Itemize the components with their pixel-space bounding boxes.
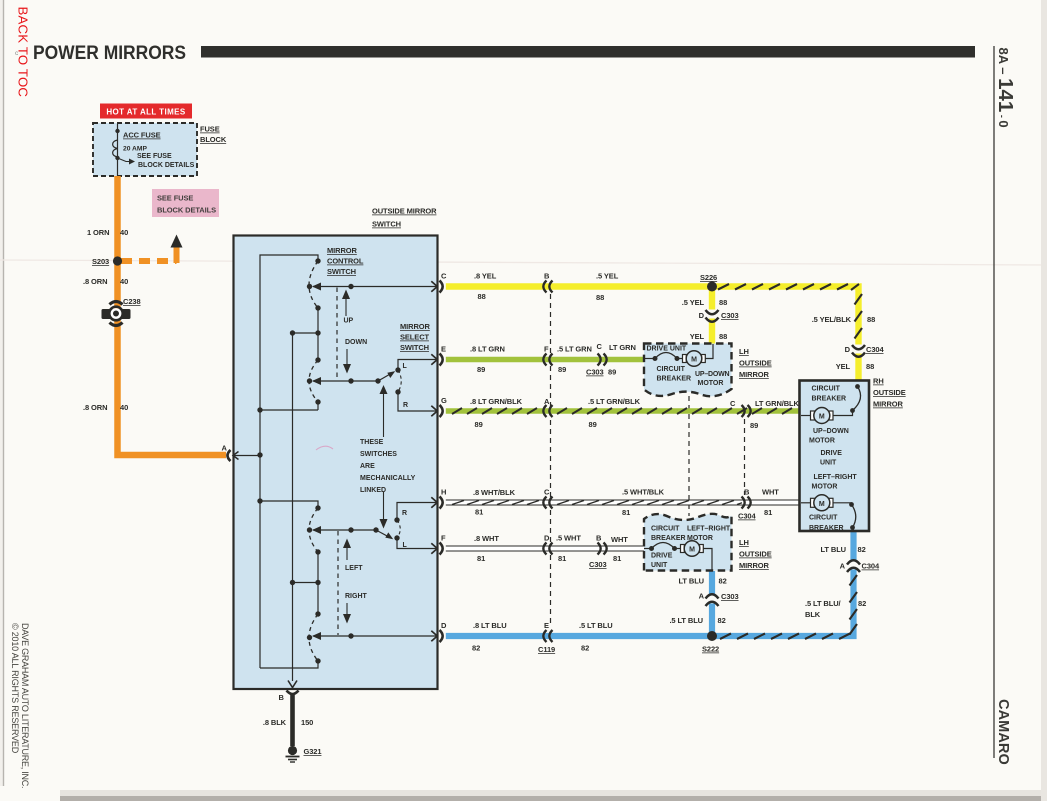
upper switch contact dots <box>307 258 321 404</box>
svg-text:ARE: ARE <box>360 463 375 470</box>
svg-text:UP: UP <box>344 318 354 325</box>
svg-text:SEE FUSE: SEE FUSE <box>157 194 193 203</box>
wire blue D row <box>446 633 712 639</box>
svg-text:MIRROR: MIRROR <box>873 400 903 409</box>
select lower dashed throw <box>397 520 400 538</box>
svg-text:R: R <box>402 510 407 517</box>
.8 ORN 40 lower label <box>83 403 128 412</box>
svg-text:BLOCK DETAILS: BLOCK DETAILS <box>138 162 195 169</box>
svg-text:RH: RH <box>873 377 884 386</box>
svg-text:LEFT–RIGHT: LEFT–RIGHT <box>687 526 731 533</box>
select upper R contact <box>395 389 436 411</box>
svg-text:E: E <box>441 345 446 354</box>
wire yellow/black S226 to C304 <box>712 287 859 347</box>
lower switch contact arc top <box>309 508 318 552</box>
fuse element ACC FUSE <box>113 140 118 157</box>
connector C238 symbol <box>102 302 131 326</box>
see fuse block details pink box <box>152 189 219 217</box>
svg-text:OUTSIDE MIRROR: OUTSIDE MIRROR <box>372 207 437 216</box>
RH mirror box <box>800 381 870 532</box>
wiper up-down C <box>312 283 437 291</box>
svg-text:ACC FUSE: ACC FUSE <box>123 131 161 140</box>
svg-text:82: 82 <box>718 616 726 625</box>
svg-text:CONTROL: CONTROL <box>327 257 364 266</box>
node below fuse <box>115 156 119 160</box>
node on fuse wire <box>115 129 119 133</box>
svg-text:89: 89 <box>589 420 597 429</box>
svg-text:.5 WHT/BLK: .5 WHT/BLK <box>622 488 665 497</box>
svg-text:F: F <box>441 534 446 543</box>
connector A C304 blue vertical <box>846 560 861 572</box>
labels blue row <box>472 621 613 654</box>
svg-text:DAVE GRAHAM AUTO LITERATURE, I: DAVE GRAHAM AUTO LITERATURE, INC. <box>20 623 30 788</box>
svg-text:82: 82 <box>858 599 866 608</box>
svg-text:.5 LT BLU: .5 LT BLU <box>579 621 613 630</box>
pink pen scribble <box>316 446 333 450</box>
svg-text:M: M <box>819 414 825 421</box>
terminal B bottom arc <box>287 691 299 695</box>
svg-text:81: 81 <box>477 554 485 563</box>
svg-text:M: M <box>819 501 825 508</box>
svg-text:FUSE: FUSE <box>200 125 220 134</box>
connector (( white-black row <box>543 497 552 509</box>
svg-text:A: A <box>699 592 705 601</box>
hashes white/black <box>452 501 742 505</box>
svg-text:G: G <box>441 396 447 405</box>
wire inside fuse block <box>117 124 119 176</box>
svg-text:.5 YEL: .5 YEL <box>596 272 619 281</box>
switch bus vertical v1 <box>260 255 318 668</box>
upper switch contact strip <box>317 308 319 360</box>
LH outside mirror label lower <box>739 538 772 570</box>
svg-text:C304: C304 <box>862 562 880 571</box>
svg-text:MOTOR: MOTOR <box>812 484 838 491</box>
svg-text:S203: S203 <box>92 257 109 266</box>
svg-text:MOTOR: MOTOR <box>809 438 835 445</box>
svg-text:MIRROR: MIRROR <box>739 370 769 379</box>
svg-text:G321: G321 <box>304 747 322 756</box>
scan page left edge <box>0 0 4 801</box>
svg-text:.8 LT BLU: .8 LT BLU <box>473 621 507 630</box>
bottom feed 666 <box>260 661 318 668</box>
svg-text:DOWN: DOWN <box>345 339 367 346</box>
svg-text:UNIT: UNIT <box>820 460 837 467</box>
LH2 motor to blue wire <box>703 549 712 571</box>
svg-text:LEFT–RIGHT: LEFT–RIGHT <box>814 474 858 481</box>
labels white row <box>474 534 628 570</box>
LH2 left-right motor label <box>687 526 731 543</box>
terminal A connector arc <box>228 450 231 461</box>
RH circuit breaker top <box>833 384 861 415</box>
svg-text:89: 89 <box>750 421 758 430</box>
svg-text:LH: LH <box>739 347 749 356</box>
lower switch contact dots <box>307 505 321 663</box>
terminal D arc <box>440 630 443 642</box>
RH circuit breaker bottom <box>833 502 856 531</box>
labels yellow row <box>474 272 619 303</box>
svg-text:OUTSIDE: OUTSIDE <box>739 550 772 559</box>
svg-text:LT GRN/BLK: LT GRN/BLK <box>755 399 800 408</box>
scan page right edge <box>1041 0 1047 801</box>
svg-text:BREAKER: BREAKER <box>651 535 686 542</box>
svg-text:40: 40 <box>120 403 128 412</box>
labels white-black row <box>473 488 779 521</box>
RIGHT annotation <box>343 593 368 624</box>
svg-text:88: 88 <box>719 332 727 341</box>
RH drive unit label <box>820 450 842 467</box>
wire white F row <box>446 546 644 551</box>
svg-text:82: 82 <box>719 577 727 586</box>
terminal G arc <box>440 405 443 417</box>
svg-text:81: 81 <box>475 508 483 517</box>
wire yellow C304 down into RH box <box>855 352 861 385</box>
feed v2 to lower contact <box>290 580 318 585</box>
svg-text:.5 LT GRN/BLK: .5 LT GRN/BLK <box>588 397 641 406</box>
LH1 motor to yellow wire <box>705 344 713 359</box>
connector D C303 yellow vertical <box>705 310 720 322</box>
svg-text:SEE FUSE: SEE FUSE <box>137 153 172 160</box>
LH1 circuit breaker label <box>657 366 692 383</box>
svg-text:B: B <box>744 488 750 497</box>
svg-text:88: 88 <box>478 292 486 301</box>
wire blue RH box to C304 <box>850 531 856 570</box>
svg-text:BREAKER: BREAKER <box>657 376 692 383</box>
svg-text:C303: C303 <box>589 560 607 569</box>
these switches mechanically linked note <box>360 439 416 494</box>
fuse block box <box>93 123 197 176</box>
node v1 410 <box>257 402 318 413</box>
hashes yellow/black <box>718 284 862 339</box>
svg-text:.5 LT GRN: .5 LT GRN <box>557 345 592 354</box>
svg-text:MIRROR: MIRROR <box>327 246 357 255</box>
outside mirror switch label <box>372 207 437 229</box>
svg-text:C304: C304 <box>738 512 756 521</box>
svg-text:LT BLU: LT BLU <box>820 545 846 554</box>
svg-text:SWITCH: SWITCH <box>327 267 356 276</box>
LH mirror assembly dashed link <box>688 396 690 516</box>
wiper left-right row <box>312 526 379 534</box>
svg-text:WHT: WHT <box>611 535 628 544</box>
svg-text:OUTSIDE: OUTSIDE <box>873 388 906 397</box>
scan page bottom edge <box>0 786 1047 801</box>
terminal letters <box>279 272 448 703</box>
LH2 drive unit label <box>651 553 673 570</box>
LH2 circuit breaker <box>644 543 681 552</box>
terminal C arc <box>440 281 443 293</box>
wire green/black G row <box>446 408 799 414</box>
svg-text:OUTSIDE: OUTSIDE <box>739 359 772 368</box>
LH1 up-down motor <box>683 351 706 367</box>
wire yellow S226 down to LH drive unit <box>709 289 715 345</box>
svg-text:A: A <box>840 562 846 571</box>
RH left-right motor <box>801 495 833 511</box>
terminal H arc <box>440 497 443 509</box>
svg-text:89: 89 <box>475 420 483 429</box>
connector )) C303 green row <box>598 354 607 366</box>
lower switch contact arc bottom <box>309 614 318 661</box>
hashes blue/black <box>720 575 857 639</box>
svg-text:MIRROR: MIRROR <box>400 322 430 331</box>
mirror control switch label <box>327 246 364 276</box>
svg-text:A: A <box>544 397 550 406</box>
RH up-down motor label <box>809 428 849 445</box>
svg-text:D: D <box>845 345 851 354</box>
svg-text:.8 WHT/BLK: .8 WHT/BLK <box>473 488 516 497</box>
svg-text:C303: C303 <box>721 592 739 601</box>
hashes green/black <box>452 408 792 414</box>
node v1 501 <box>257 498 318 508</box>
connector (( green-black row <box>543 405 552 417</box>
wiper down row <box>312 377 381 385</box>
svg-text:MOTOR: MOTOR <box>698 380 724 387</box>
connector )) C304 white-black row <box>742 497 751 509</box>
select switch wiper upper <box>378 371 395 381</box>
switch bus vertical v2 <box>292 333 294 681</box>
fuse block label <box>200 125 227 145</box>
connector column C304 dashed boundary <box>744 419 746 495</box>
svg-text:B: B <box>279 693 285 702</box>
RH up-down motor <box>801 408 833 424</box>
svg-text:.5 YEL: .5 YEL <box>682 298 705 307</box>
mechanical link dashed lower <box>337 531 339 635</box>
svg-text:DRIVE UNIT: DRIVE UNIT <box>647 346 687 353</box>
svg-text:.8 ORN: .8 ORN <box>83 277 107 286</box>
svg-text:81: 81 <box>613 554 621 563</box>
terminal F arc <box>440 543 443 555</box>
LH2 circuit breaker label <box>651 526 686 543</box>
svg-text:C119: C119 <box>538 645 555 654</box>
splice S226 <box>700 273 717 292</box>
svg-text:F: F <box>544 345 549 354</box>
svg-text:D: D <box>441 621 447 630</box>
splice S203 <box>92 256 122 266</box>
see fuse arrow <box>118 158 136 165</box>
svg-text:© 2010 ALL RIGHTS RESERVED: © 2010 ALL RIGHTS RESERVED <box>10 623 20 754</box>
wire blue/black S222 to C304 <box>712 570 854 636</box>
connector (( C row yellow <box>543 281 552 293</box>
svg-text:UP–DOWN: UP–DOWN <box>695 371 730 378</box>
svg-text:88: 88 <box>596 293 604 302</box>
scan fold line <box>0 260 1047 265</box>
feed v2 to upper contact <box>290 330 318 335</box>
.8 ORN 40 label <box>83 277 128 286</box>
svg-text:C: C <box>597 342 603 351</box>
svg-text:LH: LH <box>739 538 749 547</box>
svg-text:CIRCUIT: CIRCUIT <box>812 386 841 393</box>
svg-text:CAMARO: CAMARO <box>995 699 1011 765</box>
right margin rule <box>993 46 995 758</box>
svg-text:88: 88 <box>866 362 874 371</box>
LH1 up-down motor label <box>695 371 730 387</box>
terminal E arc <box>440 354 443 366</box>
svg-text:R: R <box>403 402 408 409</box>
svg-text:82: 82 <box>472 644 480 653</box>
RH left-right motor label <box>812 474 858 491</box>
svg-text:HOT AT ALL TIMES: HOT AT ALL TIMES <box>106 108 186 117</box>
RH circuit breaker label top <box>812 386 847 403</box>
wire blue LH drive to S222 <box>709 571 715 636</box>
LH outside mirror label upper <box>739 347 772 379</box>
connector column C119 dashed boundary <box>550 294 552 627</box>
svg-text:82: 82 <box>858 545 866 554</box>
svg-text:C303: C303 <box>721 311 739 320</box>
dashed orange branch <box>121 246 177 263</box>
branch arrowhead <box>171 235 183 248</box>
terminal arrows at right edge <box>431 281 437 641</box>
RH outside mirror label <box>873 377 906 409</box>
svg-text:1 ORN: 1 ORN <box>87 228 109 237</box>
svg-text:.8 YEL: .8 YEL <box>474 272 497 281</box>
labels blue RH vertical <box>805 545 880 619</box>
node A entry <box>233 452 263 460</box>
LH up-down drive unit box <box>644 344 732 397</box>
select upper dashed throw <box>398 370 401 392</box>
svg-text:A: A <box>222 444 228 453</box>
RH circuit breaker label bottom <box>809 515 844 533</box>
svg-text:D: D <box>699 311 705 320</box>
upper switch contact arc top <box>309 261 318 308</box>
labels yellow-black drop to C304 <box>812 315 885 371</box>
connector (( white row <box>543 543 552 555</box>
hot at all times banner <box>100 104 192 119</box>
svg-text:UNIT: UNIT <box>651 562 668 569</box>
svg-text:D: D <box>544 534 550 543</box>
connector (( blue row C119 <box>543 630 552 642</box>
svg-text:89: 89 <box>558 365 566 374</box>
svg-text:E: E <box>544 621 549 630</box>
svg-text:CIRCUIT: CIRCUIT <box>651 526 680 533</box>
svg-text:C303: C303 <box>586 368 604 377</box>
svg-text:20 AMP: 20 AMP <box>123 146 147 153</box>
svg-text:.8 LT GRN/BLK: .8 LT GRN/BLK <box>470 397 523 406</box>
svg-text:LINKED: LINKED <box>360 487 386 494</box>
svg-text:H: H <box>441 488 446 497</box>
svg-text:LT BLU: LT BLU <box>678 577 704 586</box>
1 ORN 40 label <box>87 228 128 237</box>
svg-text:YEL: YEL <box>836 362 851 371</box>
wiper bottom D row <box>312 632 437 640</box>
svg-text:DRIVE: DRIVE <box>821 450 843 457</box>
labels green-black row <box>470 397 800 430</box>
svg-text:CIRCUIT: CIRCUIT <box>657 366 686 373</box>
splice S222 <box>702 631 719 654</box>
svg-text:DRIVE: DRIVE <box>651 553 673 560</box>
svg-text:B: B <box>596 534 602 543</box>
connector D C304 yellow vertical <box>851 345 866 357</box>
svg-text:C: C <box>441 272 447 281</box>
wire white/black H row <box>446 500 799 505</box>
svg-text:BLOCK DETAILS: BLOCK DETAILS <box>157 206 216 215</box>
BACK TO TOC link text <box>15 7 31 98</box>
connector )) C303 white row <box>598 543 607 555</box>
svg-text:.8 ORN: .8 ORN <box>83 403 107 412</box>
svg-text:81: 81 <box>622 508 630 517</box>
labels yellow drop to C303 <box>682 298 739 341</box>
connector (( green row <box>543 354 552 366</box>
.8 BLK 150 label <box>263 718 313 727</box>
svg-text:.8 LT GRN: .8 LT GRN <box>470 345 505 354</box>
svg-text:LEFT: LEFT <box>345 565 363 572</box>
svg-text:C238: C238 <box>123 297 141 306</box>
svg-text:.5 WHT: .5 WHT <box>556 534 581 543</box>
LH1 circuit breaker <box>644 353 683 362</box>
svg-text:B: B <box>544 272 550 281</box>
svg-text:.8 BLK: .8 BLK <box>263 718 287 727</box>
DOWN annotation <box>343 339 367 374</box>
svg-text:CIRCUIT: CIRCUIT <box>809 515 838 522</box>
svg-text:MIRROR: MIRROR <box>739 561 769 570</box>
svg-text:.5 YEL/BLK: .5 YEL/BLK <box>812 315 852 324</box>
svg-text:POWER MIRRORS: POWER MIRRORS <box>33 42 186 64</box>
svg-text:RIGHT: RIGHT <box>345 593 368 600</box>
mechanical link dashed upper <box>336 288 338 381</box>
svg-text:WHT: WHT <box>762 488 779 497</box>
connector A C303 blue vertical <box>705 594 720 606</box>
svg-text:.5 LT BLU: .5 LT BLU <box>669 616 703 625</box>
svg-text:150: 150 <box>301 718 313 727</box>
wire green E row <box>446 357 644 363</box>
LEFT annotation <box>343 539 363 573</box>
svg-text:M: M <box>689 547 695 554</box>
svg-text:BREAKER: BREAKER <box>812 396 847 403</box>
svg-text:C: C <box>730 399 736 408</box>
title bar <box>201 46 975 58</box>
svg-text:SWITCH: SWITCH <box>400 343 429 352</box>
UP annotation <box>342 290 354 325</box>
orange feed wire <box>118 176 227 455</box>
svg-text:LT GRN: LT GRN <box>609 343 636 352</box>
terminal B bottom arrow <box>288 681 297 688</box>
svg-text:BLOCK: BLOCK <box>200 135 227 144</box>
outside mirror switch box <box>234 236 438 690</box>
svg-text:SWITCH: SWITCH <box>372 220 401 229</box>
svg-text:40: 40 <box>120 277 128 286</box>
svg-text:SWITCHES: SWITCHES <box>360 451 397 458</box>
labels green row <box>470 342 636 377</box>
see fuse block details note <box>137 153 195 169</box>
ground G321 <box>286 746 322 762</box>
svg-text:S222: S222 <box>702 645 719 654</box>
svg-text:88: 88 <box>867 315 875 324</box>
svg-text:89: 89 <box>477 365 485 374</box>
svg-text:L: L <box>403 542 408 549</box>
svg-text:UP–DOWN: UP–DOWN <box>813 428 849 435</box>
select upper L contact <box>395 360 436 373</box>
svg-text:.8 WHT: .8 WHT <box>474 534 499 543</box>
svg-text:C: C <box>544 488 550 497</box>
svg-text:BREAKER: BREAKER <box>809 525 844 532</box>
svg-text:81: 81 <box>558 554 566 563</box>
svg-text:S226: S226 <box>700 273 717 282</box>
title POWER MIRRORS <box>33 42 186 64</box>
select switch wiper lower <box>376 530 393 539</box>
LH2 left-right motor <box>681 541 704 557</box>
select lower L contact <box>394 535 436 549</box>
svg-text:BLK: BLK <box>805 610 821 619</box>
connector )) C304 green-black row <box>742 405 751 417</box>
svg-text:89: 89 <box>608 368 616 377</box>
mirror select switch label <box>400 322 430 352</box>
upper switch contact arc bottom <box>309 360 318 402</box>
svg-text:THESE: THESE <box>360 439 384 446</box>
labels blue LH vertical <box>669 577 738 626</box>
mech link note arrows <box>380 385 388 529</box>
svg-text:C304: C304 <box>866 345 884 354</box>
lower switch contact strip <box>317 552 319 614</box>
svg-text:88: 88 <box>719 298 727 307</box>
LH left-right drive unit box <box>644 514 732 571</box>
svg-text:81: 81 <box>764 508 772 517</box>
